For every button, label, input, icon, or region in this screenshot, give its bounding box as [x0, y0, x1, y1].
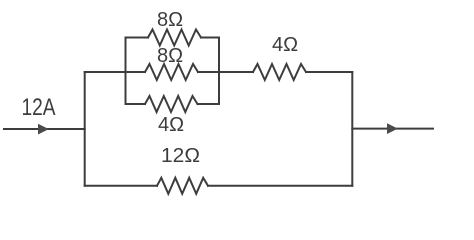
svg-text:4Ω: 4Ω [158, 114, 184, 136]
wire input lead [4, 128, 85, 130]
label 4&#937; (resistor R3 value) [158, 114, 184, 136]
resistor R4 (4 ohm, series) [253, 64, 306, 80]
svg-text:8Ω: 8Ω [157, 45, 183, 67]
label 8&#937; (resistor R2 value) [157, 45, 183, 67]
current arrow output [387, 123, 398, 134]
label 4&#937; (resistor R4 value) [272, 34, 298, 56]
wire series resistor to node B [306, 71, 352, 73]
svg-text:12Ω: 12Ω [161, 145, 200, 167]
svg-text:8Ω: 8Ω [157, 9, 183, 31]
node B (right junction) [351, 72, 353, 186]
wire box top branch right segment [201, 37, 219, 39]
resistor R2 (8 ohm, middle branch of parallel box) [145, 64, 198, 80]
svg-text:4Ω: 4Ω [272, 34, 298, 56]
svg-text:12A: 12A [22, 94, 56, 121]
wire parallel box left rail [125, 38, 127, 105]
wire output lead [352, 128, 433, 130]
wire box bottom branch left segment [126, 103, 146, 105]
label 8&#937; (resistor R1 value) [157, 9, 183, 31]
node A (left junction, input to parallel network) [84, 72, 86, 186]
resistor R3 (4 ohm, bottom branch of parallel box) [145, 96, 198, 112]
resistor R1 (8 ohm, top branch of parallel box) [148, 30, 201, 46]
label 12&#937; (resistor R5 value) [161, 145, 200, 167]
resistor R5 (12 ohm, bottom branch) [157, 178, 208, 194]
wire top branch left (node A to parallel box) [85, 71, 145, 73]
wire box top branch left segment [126, 37, 149, 39]
label 12A (input current) [22, 94, 56, 121]
wire bottom branch left (node A to 12 ohm) [85, 185, 157, 187]
wire parallel box right rail [218, 38, 220, 105]
wire middle branch (box to series resistor) [198, 71, 253, 73]
wire bottom branch right (12 ohm to node B) [208, 185, 352, 187]
wire box bottom branch right segment [198, 103, 220, 105]
current arrow input [38, 124, 49, 135]
